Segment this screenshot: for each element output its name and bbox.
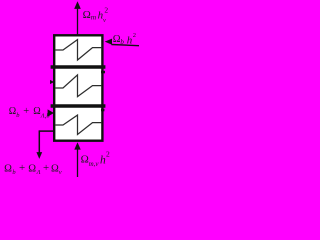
sawtooth curve in cell 2: [55, 75, 101, 97]
wire: top output arrow shaft: [77, 9, 79, 35]
svg-text:Λ: Λ: [36, 169, 41, 176]
arrowhead: right input arrow: [105, 39, 112, 45]
label: left middle input (Omega_b + Omega_L,b): [9, 106, 51, 120]
svg-text:2: 2: [104, 6, 108, 15]
svg-text:Ω: Ω: [33, 106, 40, 117]
svg-text:Ω: Ω: [51, 163, 59, 174]
tick: small right-side mark below divider 1: [101, 71, 105, 74]
svg-text:+: +: [19, 162, 25, 174]
arrowhead: small left input arrow (into cell 2): [50, 80, 54, 84]
divider line 1 (between cell 1 and cell 2): [51, 65, 106, 69]
svg-text:m,ν: m,ν: [89, 160, 100, 168]
sawtooth curve in cell 3: [55, 115, 101, 134]
svg-text:+: +: [43, 162, 49, 174]
wire: bottom-left output, horizontal segment: [39, 130, 54, 132]
svg-text:2: 2: [133, 32, 136, 39]
sawtooth curve in cell 1: [55, 40, 101, 60]
svg-text:Ω: Ω: [4, 163, 12, 174]
label: bottom-right input (Omega_m,v h^2): [81, 150, 110, 168]
svg-text:ν: ν: [59, 169, 62, 176]
svg-text:ν: ν: [103, 17, 106, 24]
wire: bottom-left output, vertical segment: [38, 130, 40, 152]
svg-text:Ω: Ω: [9, 106, 16, 117]
label: right input (Omega_b h^2): [113, 32, 136, 46]
arrowhead: bottom-left output arrow: [36, 152, 42, 159]
svg-text:Ω: Ω: [28, 163, 36, 174]
svg-text:b: b: [120, 38, 124, 46]
svg-text:Ω: Ω: [83, 9, 91, 21]
label: top output (Omega_m,v h^2): [83, 6, 109, 24]
svg-text:Ω: Ω: [81, 154, 89, 166]
label: bottom-left output (Omega_b + Omega_L + Omega_v): [4, 162, 62, 176]
wire: bottom-right input arrow shaft: [77, 149, 79, 177]
svg-text:+: +: [23, 106, 29, 117]
wire: right input arrow shaft (cell 1): [111, 45, 139, 46]
arrowhead: bottom-right input arrow (into cell 3 from below): [74, 142, 80, 149]
svg-text:m: m: [91, 13, 97, 22]
block: 3-cell box outer rectangle: [54, 35, 102, 140]
tick: small right-side mark below divider 2: [101, 109, 104, 112]
arrowhead: left middle input arrow (into cell 3): [48, 109, 54, 116]
divider line 2 (between cell 2 and cell 3): [51, 104, 106, 108]
arrowhead: top output arrow: [74, 1, 81, 9]
svg-text:2: 2: [106, 150, 110, 159]
